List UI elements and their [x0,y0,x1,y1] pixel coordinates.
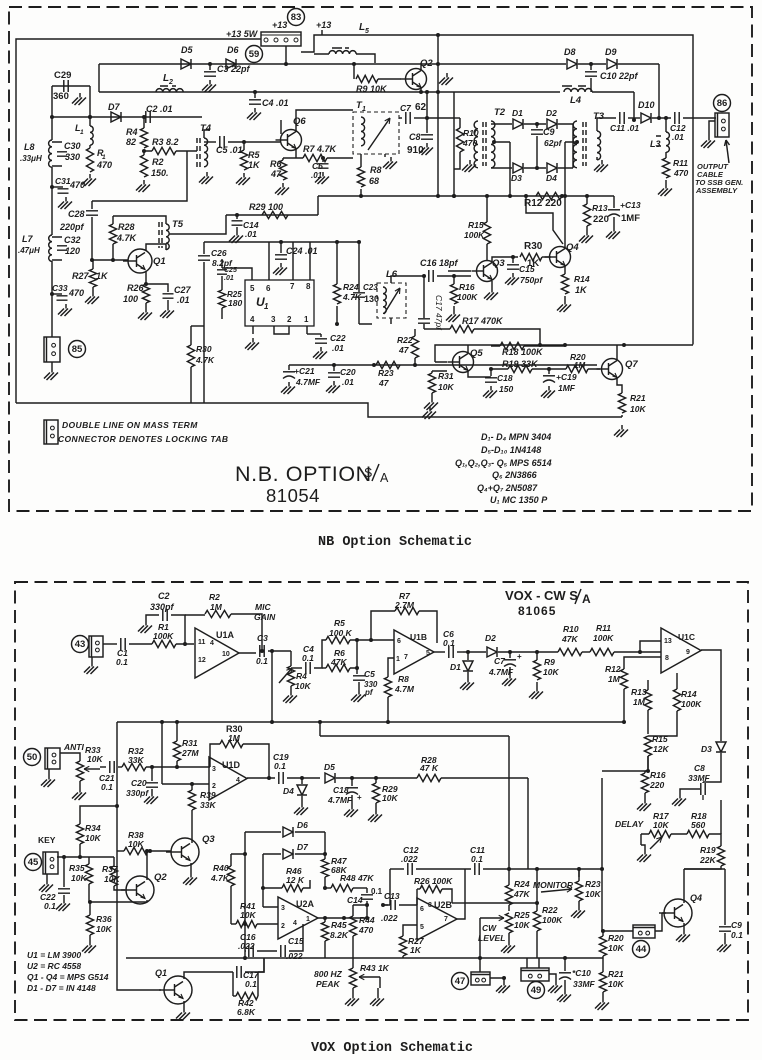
wire [321,30,323,35]
op-amp U1C [661,628,701,673]
resistor R19 33K [508,365,532,372]
op-amp U2B [417,898,457,940]
svg-text:750pf: 750pf [520,275,543,285]
wire [457,869,465,919]
svg-text:470: 470 [358,925,373,935]
svg-text:L4: L4 [570,95,582,106]
resistor R46 12K [263,887,282,889]
capacitor C20 330pf [151,767,153,781]
svg-text:DOUBLE LINE ON MASS TERM: DOUBLE LINE ON MASS TERM [62,420,198,430]
resistor R25 10K pot [505,913,512,933]
svg-text:R36: R36 [96,914,112,924]
resistor R7 2.7M [371,611,395,640]
svg-text:R24: R24 [343,282,359,292]
svg-text:45: 45 [28,857,39,868]
svg-text:R19 33K: R19 33K [502,359,539,369]
wire [162,722,209,784]
capacitor C15 .022 [281,945,285,957]
wire [602,869,633,931]
resistor R26 100 [142,284,149,303]
capacitor C28 220pf [92,151,187,209]
svg-text:C33: C33 [52,283,68,293]
svg-text:0.1: 0.1 [443,638,455,648]
svg-text:DELAY: DELAY [615,819,645,829]
wire [191,325,204,327]
svg-text:6: 6 [420,906,424,913]
resistor R40 4.7K [231,854,245,866]
svg-text:47K: 47K [513,889,530,899]
svg-text:C6: C6 [312,161,323,171]
svg-text:Q2: Q2 [420,58,433,69]
svg-text:R16: R16 [650,770,666,780]
wire [494,142,510,196]
svg-text:560: 560 [691,820,705,830]
svg-text:10K: 10K [653,820,669,830]
wire [239,652,256,654]
resistor R43 1K [359,976,380,978]
resistor R14 1K [564,266,566,274]
svg-text:100K: 100K [593,633,614,643]
svg-text:1: 1 [306,916,310,923]
resistor R25 180 [218,290,225,308]
svg-text:R24: R24 [514,879,530,889]
svg-text:R43 1K: R43 1K [360,963,390,973]
svg-text:.022: .022 [381,913,398,923]
svg-text:R4: R4 [126,127,138,137]
svg-text:59: 59 [249,49,260,60]
diode D7 [111,112,121,122]
svg-text:R18 100K: R18 100K [502,347,544,357]
resistor R27 1K [403,925,417,936]
svg-text:D5: D5 [324,762,335,772]
svg-text:R48 47K: R48 47K [340,873,374,883]
capacitor C27 .01 [146,284,168,292]
resistor R5 1K [243,142,245,150]
svg-text:D4: D4 [546,173,557,183]
svg-text:C24 .01: C24 .01 [286,246,318,256]
transformer T4 [197,138,200,168]
svg-text:D6: D6 [297,820,308,830]
capacitor C20 .01 [333,365,335,371]
resistor R18 100K [500,342,524,349]
capacitor C1 0.1 [121,638,125,650]
resistor R38 10K [117,850,124,852]
resistor R24 47K [508,869,510,885]
capacitor C22 .01 [320,334,322,337]
ground [429,407,431,412]
svg-text:D4: D4 [283,786,294,796]
svg-text:C11 .01: C11 .01 [610,123,639,133]
inductor L4 [564,89,592,93]
svg-text:8: 8 [428,902,432,909]
svg-text:Q3: Q3 [202,834,215,845]
svg-text:R23: R23 [585,879,601,889]
NB inner frame left and top wire [16,39,261,403]
resistor R9 10K [536,652,538,660]
wire [307,333,321,335]
diode D7 [263,853,281,855]
ground [91,657,93,662]
svg-text:7: 7 [444,916,448,923]
transistor Q5 [453,352,474,373]
svg-text:NB Option Schematic: NB Option Schematic [318,535,472,550]
svg-text:R11: R11 [673,158,688,168]
wire [616,345,618,360]
svg-text:+: + [517,652,522,661]
resistor R34 10K [79,844,81,857]
svg-text:T5: T5 [172,219,184,230]
svg-text:R6: R6 [270,159,282,169]
svg-text:D₅-D₁₀ 1N4148: D₅-D₁₀ 1N4148 [481,445,541,455]
svg-text:*C10: *C10 [572,968,591,978]
wire [448,270,471,272]
svg-text:0.1: 0.1 [274,761,286,771]
svg-text:C3 22pf: C3 22pf [217,64,251,74]
svg-text:D5: D5 [181,45,193,55]
svg-text:1K: 1K [575,285,588,295]
svg-text:L3: L3 [650,139,661,149]
resistor R20 10K vox [599,936,606,956]
svg-text:R31: R31 [182,738,198,748]
wire [601,778,603,869]
svg-text:.01: .01 [332,343,344,353]
svg-text:C10 22pf: C10 22pf [600,71,639,81]
svg-text:R8: R8 [398,674,409,684]
capacitor C25 .01 [221,259,223,268]
svg-text:10K: 10K [543,667,559,677]
svg-text:Q7: Q7 [625,359,638,370]
wire [467,345,469,353]
wire [98,64,100,92]
svg-text:100K: 100K [464,230,485,240]
resistor R36 10K [89,902,91,915]
svg-text:Q₄+Q₇ 2N5087: Q₄+Q₇ 2N5087 [477,483,538,493]
svg-text:D2: D2 [485,633,496,643]
resistor R23 10K pot [575,881,582,901]
svg-text:33K: 33K [200,800,216,810]
svg-text:47: 47 [270,169,282,179]
svg-text:D9: D9 [605,47,617,57]
svg-text:D10: D10 [638,100,655,110]
wire [129,643,152,645]
capacitor C18 150 [490,369,492,376]
svg-text:47 K: 47 K [419,763,439,773]
IC U1 MC1350P [245,280,314,326]
svg-text:C4 .01: C4 .01 [262,98,289,108]
wire [99,63,566,65]
resistor R22 47 [414,358,416,365]
transistor Q2 vox [126,876,154,904]
wire [52,116,202,118]
svg-text:4.7M: 4.7M [394,684,415,694]
diode D5 [181,59,191,69]
svg-text:7: 7 [290,282,295,291]
svg-text:Q3: Q3 [492,258,505,269]
svg-text:R26: R26 [127,283,145,293]
resistor R37 10K [110,866,117,886]
svg-text:R27: R27 [72,271,90,281]
transistor Q6 [281,130,302,151]
svg-text:.022: .022 [238,941,255,951]
svg-text:R35: R35 [69,863,85,873]
svg-text:R3 8.2: R3 8.2 [152,137,179,147]
resistor R2 1M [185,614,205,616]
svg-text:2: 2 [168,79,173,86]
resistor R8 68 [360,154,362,167]
transformer T3 [597,131,601,160]
svg-text:2: 2 [287,315,292,324]
diode D2 [487,647,497,657]
capacitor C8 33MF [701,783,705,795]
svg-text:220: 220 [593,214,609,225]
wire [720,800,722,834]
transistor Q3 vox [171,838,199,866]
svg-text:C32: C32 [64,235,81,245]
wire [228,141,281,143]
svg-text:Q2: Q2 [154,872,167,883]
svg-text:4: 4 [210,640,214,647]
wire [244,951,246,958]
capacitor C7 4.7MF [509,652,511,658]
NB option outer dashed border [9,7,752,511]
wire [320,722,509,869]
svg-text:150.: 150. [151,168,169,178]
svg-text:R29 100: R29 100 [249,202,283,212]
svg-text:C17 47pf: C17 47pf [434,295,444,331]
diode D1 [513,119,523,129]
svg-text:13: 13 [664,638,672,645]
svg-text:5: 5 [420,924,424,931]
svg-text:2.7M: 2.7M [394,600,415,610]
svg-text:150: 150 [499,384,513,394]
resistor R17 470K [424,328,450,330]
svg-text:R22: R22 [542,905,558,915]
diode D5 [325,773,335,783]
svg-text:R16: R16 [459,282,475,292]
wire [434,651,445,653]
capacitor C19 0.1 [279,772,283,784]
svg-text:Q4: Q4 [690,893,702,903]
svg-text:10K: 10K [585,889,601,899]
diode D3 [513,163,523,173]
svg-text:220: 220 [649,780,664,790]
svg-text:ASSEMBLY: ASSEMBLY [695,186,738,195]
svg-text:5: 5 [250,284,255,293]
resistor R31 27M [176,722,178,741]
svg-text:10K: 10K [514,920,530,930]
svg-text:R19: R19 [700,845,716,855]
wire [318,917,367,919]
capacitor C3 22pf [209,64,211,70]
svg-text:47K: 47K [330,657,347,667]
svg-text:1M: 1M [228,733,241,743]
ground [490,978,504,981]
svg-text:1M: 1M [210,602,223,612]
ground [252,338,254,343]
svg-text:.01: .01 [224,275,234,282]
capacitor C11 0.1 [475,863,479,875]
svg-text:910: 910 [407,145,424,156]
svg-text:C8: C8 [409,132,421,142]
wire [641,834,645,850]
svg-text:D2: D2 [546,108,557,118]
wire [145,271,147,284]
capacitor C15 750pf [512,257,514,263]
svg-text:C15: C15 [288,936,304,946]
svg-text:C18: C18 [333,785,349,795]
transistor Q7 [602,359,623,380]
svg-text:0.1: 0.1 [731,930,743,940]
svg-text:0.1: 0.1 [44,901,56,911]
svg-text:ANTI: ANTI [63,742,84,752]
connector P44 [633,925,655,938]
resistor R16 100K [453,276,455,284]
svg-text:0.1: 0.1 [256,656,268,666]
resistor R4 82 [143,117,145,128]
capacitor C12 .01 [675,112,679,124]
svg-text:U1A: U1A [216,630,235,640]
resistor R27 1K [92,260,93,269]
svg-text:47K: 47K [561,634,578,644]
svg-text:10K: 10K [608,943,624,953]
transistor Q3 [477,261,498,282]
transformer T5 [159,222,162,248]
svg-text:C5: C5 [364,669,375,679]
svg-text:4.7MF: 4.7MF [295,377,321,387]
wire [565,142,577,196]
resistor R1 100K [152,640,176,647]
svg-text:.33μH: .33μH [20,154,42,163]
circled 85 [69,341,86,358]
resistor R6 47 [279,160,286,180]
svg-text:4.7MF: 4.7MF [327,795,353,805]
wire [222,242,310,280]
svg-text:C16 18pf: C16 18pf [420,258,459,268]
wire [247,777,275,779]
svg-text:U2A: U2A [296,899,315,909]
svg-text:3: 3 [212,766,216,773]
transistor Q4 vox [664,899,692,927]
svg-text:22K: 22K [699,855,716,865]
svg-text:C3: C3 [257,633,268,643]
svg-text:81054: 81054 [266,485,320,506]
svg-text:120: 120 [65,246,80,256]
svg-text:44: 44 [636,944,647,955]
svg-text:470: 470 [673,168,688,178]
svg-text:pf: pf [364,688,374,697]
resistor R24 4.7K [336,242,338,284]
ground [596,157,598,160]
wire [655,913,666,931]
svg-text:50: 50 [27,752,38,763]
resistor R3 8.2 [152,147,176,154]
svg-text:100K: 100K [681,699,702,709]
resistor R42 6.8K [236,992,258,999]
resistor R44 470 [353,905,367,916]
resistor R31 10K [431,371,433,373]
op-amp U1A [195,628,239,678]
svg-text:4.7K: 4.7K [342,292,362,302]
ground [48,769,50,775]
svg-text:1K: 1K [96,271,109,281]
transformer T2 secondary [573,121,577,168]
op-amp U1B [394,630,434,674]
svg-text:A: A [582,592,591,606]
svg-text:470: 470 [68,288,84,298]
inductor L6 slug tuned [377,283,406,318]
capacitor C14 0.1 [366,888,368,893]
svg-text:0.1: 0.1 [302,653,314,663]
inductor L2 [156,89,183,92]
svg-text:330: 330 [65,152,80,162]
svg-text:R5: R5 [248,150,260,160]
svg-text:10K: 10K [438,382,454,392]
svg-text:100 K: 100 K [329,628,353,638]
svg-text:T4: T4 [200,123,212,134]
svg-text:1: 1 [264,302,269,311]
capacitor C2 330pf [171,615,185,644]
svg-text:33K: 33K [128,755,144,765]
capacitor C2 .01 [146,111,150,123]
resistor R15 12K [644,736,651,756]
svg-text:C13: C13 [384,891,400,901]
capacitor C9 0.1 [684,869,725,925]
svg-text:6: 6 [397,638,401,645]
capacitor C14 .01 [236,215,238,219]
transistor Q4 [550,247,571,268]
svg-text:82: 82 [126,137,136,147]
svg-text:Q4: Q4 [566,242,579,253]
svg-text:10K: 10K [240,910,256,920]
resistor R45 8.2K [324,918,326,922]
diode D6 [245,831,281,833]
svg-text:D6: D6 [227,45,239,55]
wire [296,110,353,132]
resistor R10 47K [537,651,558,653]
svg-text:10K: 10K [630,404,646,414]
wire [578,63,659,65]
connector P86 output [715,113,729,137]
svg-text:R5: R5 [334,618,345,628]
wire [51,294,53,337]
svg-text:R40: R40 [213,863,229,873]
capacitor C6 .01 [322,158,324,162]
resistor R7 4.7K [303,154,327,161]
wire [226,196,318,215]
svg-text:LEVEL: LEVEL [478,933,505,943]
capacitor C16 18pf [406,275,425,277]
svg-text:R13: R13 [631,687,647,697]
svg-text:C27: C27 [174,285,192,295]
connector P50 [24,749,41,766]
svg-text:0.1: 0.1 [371,887,383,896]
svg-text:R28: R28 [118,222,135,232]
svg-text:C7: C7 [494,656,506,666]
capacitor C12 .022 [390,868,404,870]
svg-text:10K: 10K [96,924,112,934]
svg-text:4: 4 [250,315,255,324]
svg-text:1M: 1M [574,361,585,370]
resistor R23 47 [376,361,400,368]
svg-text:62pf: 62pf [544,138,563,148]
svg-text:0.1: 0.1 [101,782,113,792]
svg-text:C8: C8 [694,763,705,773]
svg-text:R15: R15 [652,734,668,744]
op-amp U2A [278,897,318,939]
svg-text:C2: C2 [158,591,170,601]
svg-text:.47μH: .47μH [18,246,40,255]
capacitor C23 130 [358,288,360,292]
